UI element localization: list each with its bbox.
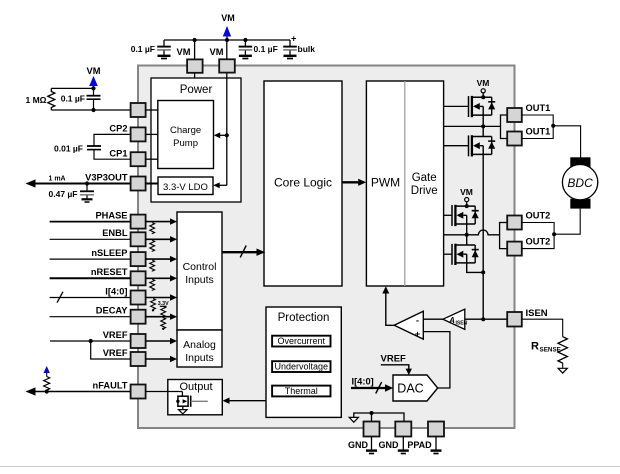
- resistor pulldown i40: [151, 299, 156, 310]
- node Q4 source join: [481, 270, 485, 274]
- svg-text:Charge: Charge: [170, 125, 201, 136]
- svg-text:bulk: bulk: [298, 44, 316, 54]
- node vcp top: [91, 86, 95, 90]
- node vref split: [89, 339, 93, 343]
- wire nsleep to control inputs: [146, 258, 173, 260]
- wire to motor top: [553, 126, 580, 158]
- svg-text:Control: Control: [183, 261, 217, 273]
- svg-text:3.3-V LDO: 3.3-V LDO: [163, 182, 208, 193]
- wire vref2 to analog inputs: [146, 358, 173, 360]
- wire Q2 source down to isen rail: [482, 154, 484, 319]
- wire top to resistor: [51, 87, 93, 89]
- wire VREF in: [50, 340, 131, 342]
- pin V3P3OUT: [131, 177, 146, 191]
- resistor pulldown nreset: [150, 279, 155, 290]
- svg-text:Pump: Pump: [173, 138, 198, 149]
- wire nFAULT with arrow: [29, 391, 131, 393]
- wire vref down to second pin: [91, 341, 131, 359]
- wire Q2 drain up: [482, 126, 484, 136]
- svg-text:0.01 µF: 0.01 µF: [54, 144, 83, 154]
- svg-text:DAC: DAC: [397, 382, 423, 396]
- wire phase rail OUT1: [444, 125, 501, 127]
- svg-text:-: -: [416, 315, 419, 325]
- node v3p3out: [85, 181, 89, 185]
- svg-text:VM: VM: [221, 13, 235, 23]
- wire VM bus: [164, 39, 290, 41]
- node drain Q3: [465, 204, 469, 208]
- capacitor 0.01uF: [87, 145, 101, 147]
- svg-text:Analog: Analog: [183, 339, 216, 351]
- wire cp1 loop: [94, 150, 131, 159]
- output block: [168, 380, 223, 415]
- svg-text:Thermal: Thermal: [285, 386, 318, 396]
- wire Q4 drain up: [466, 235, 468, 245]
- bus slash: [240, 246, 246, 258]
- wire nRESET: [50, 277, 131, 279]
- pin VM 1: [187, 59, 203, 72]
- svg-text:+: +: [291, 34, 297, 44]
- wire bus to pin VM2: [226, 40, 228, 59]
- wire enbl to control inputs: [146, 238, 173, 240]
- wire to motor bottom: [554, 209, 580, 235]
- pin VM 2: [219, 59, 235, 72]
- svg-text:VREF: VREF: [381, 354, 407, 365]
- svg-text:ISEN: ISEN: [526, 308, 548, 319]
- svg-text:Overcurrent: Overcurrent: [278, 336, 326, 346]
- resistor 1 Mohm: [48, 88, 55, 110]
- pin VREF 2: [131, 352, 146, 366]
- svg-text:nRESET: nRESET: [91, 267, 128, 277]
- ground symbol at tie: [349, 417, 358, 422]
- wire gate drive to Q1 gate: [444, 105, 469, 107]
- bus slash on I[4:0]: [376, 382, 382, 394]
- wire cp2 loop: [94, 134, 131, 145]
- resistor pullup nfault: [44, 377, 50, 392]
- wire nSLEEP: [50, 258, 131, 260]
- svg-text:nFAULT: nFAULT: [93, 380, 128, 390]
- wire split to OUT2 pins: [500, 223, 508, 249]
- pin OUT2b: [507, 242, 522, 256]
- svg-text:VM: VM: [477, 78, 490, 88]
- resistor pulldown phase: [150, 223, 155, 234]
- wire OUT1 pins to motor: [522, 115, 553, 139]
- svg-text:R: R: [531, 341, 539, 353]
- wire gnd tie: [354, 413, 404, 422]
- pin PHASE: [131, 215, 146, 229]
- svg-text:OUT1: OUT1: [526, 103, 551, 113]
- resistor pullup decay: [161, 306, 166, 317]
- svg-text:nSLEEP: nSLEEP: [91, 248, 127, 258]
- svg-text:GND: GND: [379, 440, 400, 450]
- pin GND 2: [395, 422, 411, 437]
- power block: [151, 78, 241, 202]
- node nfault pullup: [45, 389, 49, 393]
- overcurrent block: [272, 336, 330, 347]
- svg-text:Undervoltage: Undervoltage: [275, 361, 329, 371]
- faint page rule at bottom: [0, 466, 620, 468]
- wire down to gnd1: [371, 413, 373, 422]
- gnd2 stub and ground: [402, 437, 404, 451]
- svg-text:SENSE: SENSE: [540, 347, 561, 354]
- wire pin cp2 to charge pump: [146, 133, 158, 135]
- svg-text:VREF: VREF: [103, 330, 128, 340]
- wire VM feed vertical: [226, 73, 228, 186]
- svg-text:PPAD: PPAD: [407, 440, 432, 450]
- node VM-CP junction: [225, 133, 229, 137]
- wire ENBL: [50, 238, 131, 240]
- wire comparator output up to pwm: [386, 291, 394, 325]
- thermal block: [272, 386, 330, 397]
- motor BDC: [562, 157, 597, 208]
- pin nFAULT: [131, 385, 146, 399]
- wire protection to output block: [227, 400, 266, 402]
- wire Q1 source down: [482, 115, 484, 126]
- stub VM1 into power block: [194, 73, 196, 78]
- wire gate drive to Q4 gate: [444, 253, 452, 255]
- node vcp bottom: [91, 108, 95, 112]
- pin ISEN: [507, 312, 522, 327]
- divider pwm/gate-drive: [404, 81, 406, 286]
- analog inputs block: [177, 330, 222, 367]
- node VM1: [193, 38, 197, 42]
- VM arrow small (pullup supply): [44, 366, 50, 373]
- bus wire control inputs to core logic: [222, 251, 260, 253]
- node VM2: [225, 38, 229, 42]
- wire gate drive to Q2 gate: [444, 145, 469, 147]
- pin nSLEEP: [131, 252, 146, 266]
- svg-text:0.1 µF: 0.1 µF: [131, 44, 155, 54]
- wire nreset to control inputs: [146, 277, 173, 279]
- capacitor 0.1uF (right of VM pins): [239, 40, 253, 59]
- svg-text:VM: VM: [177, 47, 191, 57]
- pin I[4:0]: [131, 291, 146, 305]
- wire pin vcp to charge pump: [146, 109, 158, 111]
- pin PPAD: [428, 422, 444, 437]
- wire phase to control inputs: [146, 221, 173, 223]
- wire to charge pump: [218, 134, 227, 136]
- pin CP2: [131, 127, 146, 141]
- node OUT2 ext: [552, 232, 556, 236]
- svg-text:Output: Output: [179, 381, 212, 393]
- svg-text:VM: VM: [210, 47, 224, 57]
- pin VREF 1: [131, 334, 146, 348]
- open-drain output transistor: [176, 392, 208, 414]
- resistor pulldown nsleep: [150, 260, 155, 271]
- comparator U-COMP: [394, 311, 423, 339]
- transistor Q1 (high-side OUT1): [469, 96, 496, 117]
- svg-text:DECAY: DECAY: [96, 306, 128, 316]
- svg-text:1 MΩ: 1 MΩ: [26, 95, 47, 105]
- svg-text:OUT2: OUT2: [526, 236, 551, 246]
- node drain Q1: [481, 95, 485, 99]
- svg-text:Gate: Gate: [412, 172, 437, 184]
- svg-text:OUT2: OUT2: [526, 210, 551, 220]
- ground below rsense: [562, 363, 564, 368]
- pin nRESET: [131, 271, 146, 285]
- transistor Q4 (low-side OUT2): [452, 244, 479, 265]
- capacitor 0.47uF: [86, 184, 88, 191]
- charge pump U-CP: [158, 101, 214, 169]
- wire i40 to control inputs: [146, 297, 173, 299]
- undervoltage block: [272, 361, 330, 372]
- svg-text:V3P3OUT: V3P3OUT: [85, 172, 128, 182]
- resistor pulldown decay: [161, 318, 166, 329]
- wire vcp to pin: [51, 109, 130, 111]
- node OUT1 ext: [551, 124, 555, 128]
- ppad stub and ground: [435, 437, 437, 451]
- svg-text:0.1 µF: 0.1 µF: [61, 94, 85, 104]
- pin GND 1: [364, 422, 380, 437]
- bus slash I[4:0]: [57, 292, 63, 303]
- svg-text:PHASE: PHASE: [95, 210, 127, 220]
- svg-text:Drive: Drive: [411, 185, 438, 197]
- amp A-ISEN: [443, 309, 465, 329]
- wire dac to comparator plus: [423, 332, 450, 388]
- pin DECAY: [131, 310, 146, 324]
- wire amp to comparator minus: [423, 318, 443, 320]
- pin ENBL: [131, 232, 146, 246]
- wire bus to pin VM1: [194, 40, 196, 59]
- wire I[4:0] to dac: [351, 387, 388, 389]
- svg-text:I[4:0]: I[4:0]: [105, 286, 127, 296]
- DAC: [393, 375, 438, 401]
- pin VCP: [131, 103, 146, 117]
- svg-text:+: +: [415, 329, 420, 339]
- pin OUT1b: [507, 132, 522, 146]
- wire to LDO: [218, 184, 227, 186]
- svg-text:Inputs: Inputs: [185, 352, 214, 364]
- wire Q4 source to isen line: [467, 263, 484, 273]
- svg-text:GND: GND: [348, 440, 369, 450]
- wire gate drive to Q3 gate: [444, 214, 452, 216]
- svg-text:ISEN: ISEN: [456, 320, 468, 326]
- svg-text:Power: Power: [180, 84, 213, 96]
- capacitor 0.1uF vcp: [93, 88, 95, 95]
- wire I[4:0]: [50, 297, 131, 299]
- node cap2: [243, 38, 247, 42]
- svg-text:VREF: VREF: [103, 348, 128, 358]
- wire vref to dac: [381, 365, 409, 371]
- pin OUT1a: [507, 108, 522, 122]
- gnd1 stub and ground: [371, 437, 373, 451]
- node isen rail: [481, 317, 485, 321]
- svg-text:Core Logic: Core Logic: [274, 176, 332, 190]
- svg-text:CP2: CP2: [109, 124, 127, 134]
- pwm + gate drive block: [366, 81, 443, 286]
- wire Q3 source down: [466, 224, 468, 235]
- wire phase rail OUT2 with hop over Q2 source line: [444, 230, 500, 235]
- svg-text:Inputs: Inputs: [185, 274, 214, 286]
- svg-text:0.1 µF: 0.1 µF: [254, 44, 278, 54]
- wire pin v3p3out to ldo: [146, 183, 158, 185]
- wire vref1 to analog inputs: [146, 340, 173, 342]
- transistor Q3 (high-side OUT2): [452, 205, 479, 226]
- svg-text:VM: VM: [87, 66, 101, 76]
- svg-text:CP1: CP1: [109, 148, 127, 158]
- core logic block: [264, 81, 342, 286]
- svg-text:I[4:0]: I[4:0]: [352, 376, 374, 386]
- svg-text:0.47 µF: 0.47 µF: [49, 189, 78, 199]
- pin CP1: [131, 152, 146, 166]
- capacitor bulk (electrolytic): [283, 40, 297, 59]
- wire isen rail: [465, 318, 507, 320]
- wire PHASE: [50, 221, 131, 223]
- wire v3p3out with arrow: [29, 183, 131, 185]
- node OUT1 phase: [481, 124, 485, 128]
- wire nfault pin to output block: [146, 391, 183, 393]
- svg-text:Protection: Protection: [278, 312, 330, 324]
- wire OUT2 pins join: [522, 223, 554, 249]
- wire decay to control inputs: [146, 316, 173, 318]
- wire isen to rsense: [522, 319, 563, 337]
- svg-text:1 mA: 1 mA: [49, 176, 66, 183]
- svg-text:OUT1: OUT1: [526, 126, 551, 136]
- wire split to OUT1 pins: [501, 115, 508, 139]
- svg-text:BDC: BDC: [567, 176, 593, 190]
- wire DECAY: [50, 316, 131, 318]
- main device block: [138, 66, 515, 429]
- wire pin cp1 to charge pump: [146, 158, 158, 160]
- transistor Q2 (low-side OUT1): [469, 135, 496, 156]
- resistor RSENSE: [558, 337, 567, 363]
- node OUT2 phase: [465, 233, 469, 237]
- svg-text:A: A: [448, 316, 455, 325]
- wire core logic to pwm arrow: [342, 181, 361, 183]
- pin OUT2a: [507, 216, 522, 230]
- svg-text:ENBL: ENBL: [102, 228, 128, 238]
- svg-text:VM: VM: [460, 187, 473, 197]
- resistor pulldown enbl: [150, 240, 155, 251]
- control inputs block: [177, 212, 222, 330]
- protection block: [266, 307, 341, 417]
- 3.3-V LDO: [158, 177, 213, 195]
- node gnd tie: [370, 411, 374, 415]
- svg-text:PWM: PWM: [371, 176, 400, 190]
